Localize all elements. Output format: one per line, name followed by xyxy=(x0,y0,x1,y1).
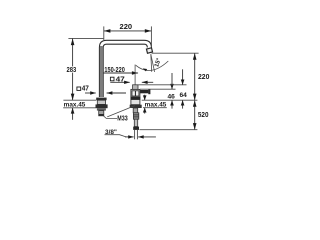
spout mounting nut dark band xyxy=(96,104,108,108)
label square 47 left xyxy=(77,87,81,90)
dimension 150-220: dimension line with right arrow xyxy=(103,72,138,74)
hose end extension line xyxy=(140,129,198,131)
label M33 leader to control shank xyxy=(107,106,135,117)
control body dark band xyxy=(131,97,141,100)
dimension max45 left: lower outside arrow xyxy=(72,108,74,120)
spout tube outer contour xyxy=(99,40,151,97)
label 3/8 inch underline leader xyxy=(105,135,127,137)
control body block xyxy=(131,89,140,104)
svg-text:220: 220 xyxy=(198,74,209,81)
svg-text:220: 220 xyxy=(120,24,133,31)
control escutcheon plate xyxy=(130,105,142,108)
svg-text:M33: M33 xyxy=(117,116,127,123)
spout aerator tip block xyxy=(146,48,152,53)
svg-text:283: 283 xyxy=(67,67,77,74)
spout tube inner contour xyxy=(103,44,147,97)
swivel annotation 15 degree line xyxy=(151,54,155,72)
dimension 220 top: left extension line xyxy=(103,26,105,40)
dimension square 47 middle: right outside arrow with tail xyxy=(142,81,153,83)
spout tail pipe xyxy=(99,111,104,116)
dimension 520: value label xyxy=(197,111,209,117)
svg-text:520: 520 xyxy=(198,112,209,119)
control lever bar xyxy=(136,90,148,93)
hose width right outside arrow xyxy=(138,136,156,138)
svg-text:46: 46 xyxy=(168,93,176,100)
right counter top line xyxy=(142,99,198,101)
dimension 46: lower outside arrow xyxy=(171,100,173,108)
control tail pipe xyxy=(133,108,138,113)
dimension 64: lower outside arrow xyxy=(182,100,184,108)
control body windows xyxy=(132,90,140,96)
hose end lines xyxy=(134,130,136,139)
right counter bottom line xyxy=(143,107,167,109)
dimension 64: upper outside arrow xyxy=(182,69,184,84)
swivel annotation vertical line xyxy=(150,54,153,72)
spout lower ring band xyxy=(97,108,106,110)
left counter bottom line xyxy=(63,107,95,109)
swivel annotation arc xyxy=(136,61,169,70)
control hose connector nut xyxy=(133,127,139,130)
svg-text:64: 64 xyxy=(180,92,188,99)
label M33 leader to spout shank xyxy=(104,116,118,119)
control column centerline extension xyxy=(134,65,136,85)
spout riser gray fill xyxy=(100,46,103,97)
dimension 283: top extension line xyxy=(68,37,103,39)
dimension 220 top: right extension line xyxy=(150,26,152,45)
hose width left outside arrow xyxy=(125,136,134,138)
dimension square 47 left: left outside arrow xyxy=(85,92,96,94)
spout base block in counter xyxy=(97,100,105,104)
dimension 220 right: dimension line xyxy=(194,53,196,100)
label square 47 middle xyxy=(110,77,114,81)
spout tail bottom dark band xyxy=(99,114,104,116)
dimension square 47 middle: left outside arrow xyxy=(110,81,129,83)
svg-text:47: 47 xyxy=(82,85,89,92)
spout outlet height extension line xyxy=(152,52,199,54)
dimension square 47 left: right outside arrow with tail xyxy=(107,92,126,94)
left counter top line xyxy=(63,99,96,101)
dimension 283: vertical dimension line xyxy=(72,39,74,100)
control lever end cap xyxy=(148,89,150,94)
svg-text:max.45: max.45 xyxy=(64,102,86,109)
dimension 283: value label xyxy=(66,66,78,72)
swivel annotation arc arrowhead xyxy=(143,68,148,71)
spout escutcheon dark band xyxy=(96,98,106,101)
control hose connector bands xyxy=(133,113,138,119)
dimension 64: extension line from stem top xyxy=(138,84,186,86)
dimension 46: upper outside arrow xyxy=(171,73,173,89)
control hose upper tube xyxy=(134,119,137,126)
control cartridge stem xyxy=(133,85,138,90)
dimension 520: dimension line xyxy=(194,100,196,129)
dimension max45 right: lower outside arrow xyxy=(144,108,146,114)
svg-text:max.45: max.45 xyxy=(145,102,167,109)
dimension max45 right: upper outside arrow xyxy=(144,95,146,100)
dimension 220 top: dimension line xyxy=(104,30,152,32)
dimension 46: extension line from body top xyxy=(140,88,176,90)
